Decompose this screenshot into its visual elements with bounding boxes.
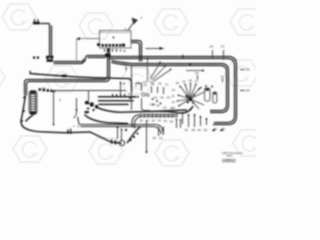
svg-text:11: 11 bbox=[172, 94, 175, 98]
svg-text:6: 6 bbox=[59, 98, 61, 102]
svg-text:29: 29 bbox=[246, 68, 250, 72]
svg-text:25: 25 bbox=[246, 89, 250, 93]
svg-text:36: 36 bbox=[222, 127, 226, 131]
svg-text:7: 7 bbox=[73, 125, 75, 129]
svg-text:10: 10 bbox=[172, 88, 176, 92]
svg-text:8: 8 bbox=[78, 125, 80, 129]
svg-text:1: 1 bbox=[141, 16, 143, 20]
svg-text:31: 31 bbox=[159, 136, 163, 140]
svg-text:30: 30 bbox=[140, 119, 144, 123]
svg-text:4: 4 bbox=[163, 47, 165, 51]
svg-text:30: 30 bbox=[153, 136, 157, 140]
svg-text:9: 9 bbox=[135, 84, 137, 88]
svg-text:31: 31 bbox=[146, 119, 150, 123]
svg-text:15: 15 bbox=[144, 83, 148, 87]
svg-text:10: 10 bbox=[167, 96, 171, 100]
svg-text:27: 27 bbox=[221, 45, 225, 49]
svg-text:19: 19 bbox=[160, 96, 164, 100]
svg-text:33: 33 bbox=[158, 119, 162, 123]
svg-text:3: 3 bbox=[129, 92, 131, 96]
svg-text:35: 35 bbox=[170, 120, 174, 124]
svg-text:38: 38 bbox=[192, 128, 196, 132]
svg-text:32: 32 bbox=[198, 128, 202, 132]
svg-text:21: 21 bbox=[137, 81, 141, 85]
svg-text:39: 39 bbox=[204, 128, 208, 132]
svg-text:30: 30 bbox=[42, 87, 46, 91]
svg-text:34: 34 bbox=[214, 127, 218, 131]
svg-text:15: 15 bbox=[182, 80, 186, 84]
svg-text:18: 18 bbox=[189, 79, 193, 83]
svg-text:18: 18 bbox=[151, 82, 155, 86]
svg-text:28: 28 bbox=[210, 45, 214, 49]
svg-text:17: 17 bbox=[195, 80, 199, 84]
svg-text:12: 12 bbox=[172, 100, 176, 104]
svg-text:21: 21 bbox=[163, 106, 167, 110]
svg-text:32: 32 bbox=[152, 119, 156, 123]
svg-text:16: 16 bbox=[158, 82, 162, 86]
svg-text:34: 34 bbox=[164, 119, 168, 123]
svg-text:17: 17 bbox=[165, 83, 169, 87]
svg-text:12: 12 bbox=[150, 103, 154, 107]
svg-text:14365217: 14365217 bbox=[222, 158, 236, 162]
svg-text:36: 36 bbox=[185, 128, 189, 132]
svg-text:18: 18 bbox=[176, 81, 180, 85]
svg-text:24: 24 bbox=[195, 71, 199, 75]
svg-text:15: 15 bbox=[154, 96, 158, 100]
svg-text:20: 20 bbox=[156, 104, 160, 108]
svg-text:22: 22 bbox=[170, 106, 174, 110]
svg-text:14: 14 bbox=[221, 75, 225, 79]
svg-text:2: 2 bbox=[125, 27, 127, 31]
